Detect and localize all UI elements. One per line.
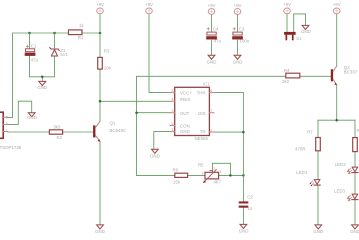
wire OUT to Q2 base via R4: [137, 75, 331, 77]
wire +9V to S1 and ground: [287, 14, 306, 32]
svg-text:R3: R3: [104, 48, 110, 53]
svg-text:C1: C1: [31, 44, 37, 49]
transistor Q2 BC337: [331, 65, 358, 85]
wire C4 to ground: [211, 40, 213, 55]
supply +9V S1: [283, 2, 291, 14]
wire R8 LED2 LED3 branch: [354, 120, 356, 225]
ground S1: [301, 25, 311, 34]
svg-text:2k2: 2k2: [282, 79, 290, 84]
wire +9V to C3: [237, 15, 239, 32]
wire TSOP pin1 to Q1 base via R2: [8, 131, 94, 133]
resistor R8: [353, 128, 359, 151]
wire timing row R6 pot to C2 node: [137, 174, 244, 176]
wire R7 branch: [317, 120, 319, 225]
svg-text:1: 1: [220, 170, 222, 174]
svg-text:TR: TR: [200, 129, 206, 134]
node A junction at R1 right: [99, 32, 102, 35]
wire Q1 emitter to ground: [99, 142, 101, 225]
capacitor C1 47u: [25, 44, 39, 63]
resistor R7 470R: [295, 129, 320, 151]
wire R3 bottom to Q1 collector: [99, 69, 101, 121]
switch S1: [284, 32, 302, 41]
svg-text:VCC+: VCC+: [180, 91, 192, 96]
svg-text:BC549C: BC549C: [110, 128, 127, 133]
svg-text:R1: R1: [78, 35, 84, 40]
svg-text:BC337: BC337: [344, 70, 358, 75]
junction C1 top: [28, 32, 31, 35]
svg-text:1: 1: [6, 129, 8, 133]
svg-text:47u: 47u: [214, 38, 222, 43]
wire C1 to rail: [29, 33, 31, 49]
wire Q2 emitter to LED rail: [336, 85, 338, 120]
wire +9V to C4: [211, 15, 213, 32]
svg-text:GND: GND: [301, 29, 311, 34]
junction wiper: [229, 174, 232, 177]
svg-text:3k3: 3k3: [53, 124, 61, 129]
supply +9V C3: [234, 3, 242, 15]
junction OUT node: [135, 111, 138, 114]
wire node to 555 pin4: [100, 100, 170, 102]
svg-text:R5: R5: [198, 162, 204, 167]
ground TSOP pin2: [27, 113, 37, 120]
svg-text:3: 3: [6, 115, 8, 119]
ground C3: [233, 55, 243, 64]
potentiometer R5 4k7: [198, 162, 222, 184]
svg-text:15k: 15k: [173, 179, 181, 184]
svg-text:+9V: +9V: [145, 2, 153, 7]
junction TR node: [242, 131, 245, 134]
LED1: [296, 170, 320, 186]
resistor R4 2k2: [282, 68, 300, 84]
svg-text:GND: GND: [207, 59, 217, 64]
ground Q1 emitter: [95, 225, 105, 234]
svg-text:GND: GND: [233, 59, 243, 64]
junction LED rail: [335, 119, 338, 122]
svg-text:C2: C2: [247, 195, 253, 200]
svg-text:47u: 47u: [31, 57, 39, 62]
svg-text:4k7: 4k7: [214, 180, 222, 185]
svg-text:C3: C3: [239, 27, 245, 32]
wire main rail node A: [8, 33, 101, 118]
resistor R2 3.3: [49, 124, 62, 140]
svg-text:2: 2: [210, 128, 212, 132]
svg-text:470R: 470R: [295, 147, 306, 152]
wire 555 pin1 to ground: [154, 132, 170, 150]
ground LED3: [350, 225, 359, 234]
wire TSOP pin2 to ground: [8, 101, 32, 124]
svg-text:4: 4: [172, 98, 174, 102]
capacitor C4 47u: [206, 27, 221, 44]
resistor R1 1k: [69, 23, 85, 40]
wire THR TR net: [214, 93, 243, 202]
svg-text:IC1: IC1: [203, 81, 210, 86]
wire C2 bottom to ground: [242, 208, 244, 225]
svg-text:5: 5: [172, 122, 174, 126]
svg-text:1k: 1k: [79, 23, 84, 28]
svg-text:2: 2: [213, 167, 215, 171]
svg-text:GND: GND: [313, 229, 323, 234]
svg-text:100u: 100u: [240, 38, 250, 43]
ground 555 pin1: [150, 149, 160, 158]
ground C1/Z1: [37, 81, 47, 90]
svg-text:+9V: +9V: [234, 3, 242, 8]
op-amp IC1 NE555 box: [170, 81, 214, 141]
svg-text:1: 1: [172, 128, 174, 132]
svg-text:LED1: LED1: [296, 170, 308, 175]
svg-text:+9V: +9V: [96, 2, 104, 7]
resistor R6 15k: [173, 167, 188, 184]
wire +9V to Q2 collector: [336, 14, 338, 66]
svg-text:THR: THR: [197, 91, 206, 96]
svg-text:TSOP1738: TSOP1738: [0, 145, 22, 150]
svg-text:R4: R4: [284, 68, 290, 73]
wire +9V to R3 top: [99, 14, 101, 57]
svg-text:R6: R6: [173, 167, 179, 172]
svg-text:GND: GND: [37, 85, 47, 90]
svg-text:2: 2: [6, 122, 8, 126]
svg-text:GND: GND: [180, 129, 190, 134]
svg-text:OUT: OUT: [180, 111, 190, 116]
svg-text:Q1: Q1: [110, 121, 116, 126]
wire C1/Z1 bottoms to ground node: [30, 56, 55, 81]
supply +9V 555: [145, 2, 153, 14]
wire LED rail: [318, 119, 355, 121]
svg-text:DIS: DIS: [198, 111, 205, 116]
ground C4: [207, 55, 217, 64]
wire pot wiper link: [212, 163, 230, 175]
svg-text:8: 8: [172, 89, 174, 93]
wire Z1 to rail: [54, 33, 56, 48]
wire 555 OUT net: [137, 76, 171, 175]
svg-text:CON: CON: [180, 123, 190, 128]
connector TSOP1738: [0, 112, 22, 150]
ground C2: [239, 224, 249, 233]
wire C3 to ground: [237, 40, 239, 55]
transistor Q1 BC549C: [93, 121, 126, 142]
svg-text:+9V: +9V: [283, 2, 291, 7]
ground LED1: [313, 225, 323, 234]
svg-text:C4: C4: [213, 27, 219, 32]
svg-text:+9V: +9V: [208, 3, 216, 8]
svg-text:3: 3: [172, 109, 174, 113]
svg-text:LED2: LED2: [335, 162, 347, 167]
svg-text:10k: 10k: [104, 66, 112, 71]
supply +9V C4: [208, 3, 216, 15]
svg-text:GND: GND: [95, 229, 105, 234]
svg-text:6: 6: [210, 89, 212, 93]
svg-text:/RES: /RES: [180, 97, 190, 102]
capacitor C3 100u: [232, 27, 250, 44]
svg-text:GND: GND: [27, 115, 37, 120]
zener diode Z1 5V1: [50, 48, 69, 58]
supply +9V node A: [96, 2, 104, 14]
resistor R3 10k: [98, 48, 112, 70]
svg-text:GND: GND: [350, 229, 359, 234]
supply +9V Q2: [333, 2, 341, 14]
svg-text:1n: 1n: [247, 206, 252, 211]
svg-text:NE555: NE555: [195, 136, 209, 141]
svg-text:3: 3: [201, 171, 203, 175]
svg-text:R2: R2: [57, 135, 63, 140]
junction ground node C1/Z1: [41, 76, 44, 79]
wire +9V to 555 pin8: [149, 14, 170, 92]
junction Z1 top: [53, 32, 56, 35]
LED3: [334, 189, 358, 201]
junction timing node: [242, 174, 245, 177]
capacitor C2 1n: [239, 195, 254, 212]
junction R3/Q1/pin4: [99, 100, 102, 103]
svg-text:R7: R7: [307, 129, 313, 134]
LED2: [335, 162, 358, 174]
svg-text:GND: GND: [239, 229, 249, 234]
svg-text:GND: GND: [150, 153, 160, 158]
svg-text:S1: S1: [296, 36, 302, 41]
svg-text:7: 7: [210, 109, 212, 113]
svg-text:+9V: +9V: [333, 2, 341, 7]
svg-text:5V1: 5V1: [60, 52, 68, 57]
svg-text:LED3: LED3: [334, 189, 346, 194]
